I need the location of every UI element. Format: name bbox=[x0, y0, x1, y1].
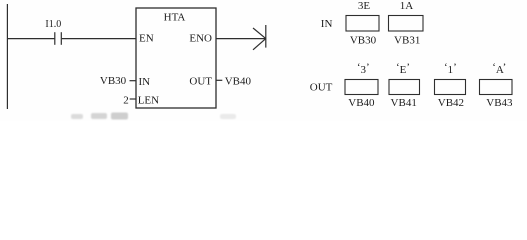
pin EN bbox=[139, 33, 154, 45]
svg-text:VB41: VB41 bbox=[391, 97, 417, 109]
svg-text:VB40: VB40 bbox=[348, 97, 375, 109]
address VB43 bbox=[486, 97, 513, 109]
value '3' above VB40 bbox=[357, 62, 370, 77]
byte box VB43 bbox=[480, 80, 513, 95]
svg-text:VB40: VB40 bbox=[225, 76, 252, 88]
pin ENO bbox=[189, 33, 212, 45]
operand 2 at LEN bbox=[123, 94, 129, 106]
svg-text:IN: IN bbox=[139, 76, 151, 88]
operand VB30 at IN bbox=[100, 75, 127, 87]
wire: rail to contact I1.0 bbox=[7, 38, 54, 40]
svg-text:OUT: OUT bbox=[310, 81, 333, 93]
pin OUT bbox=[189, 76, 212, 88]
label HTA bbox=[164, 11, 186, 23]
svg-text:VB30: VB30 bbox=[100, 75, 127, 87]
svg-text:1A: 1A bbox=[400, 0, 414, 12]
pin IN bbox=[139, 76, 151, 88]
svg-text:IN: IN bbox=[321, 18, 333, 30]
label OUT (output byte table) bbox=[310, 81, 333, 93]
address VB30 bbox=[350, 35, 377, 47]
svg-text:VB30: VB30 bbox=[350, 35, 377, 47]
svg-text:ENO: ENO bbox=[189, 33, 212, 45]
left power rail bbox=[6, 4, 8, 109]
address VB42 bbox=[438, 97, 464, 109]
label IN (input byte table) bbox=[321, 18, 333, 30]
svg-text:HTA: HTA bbox=[164, 11, 186, 23]
label I1.0 bbox=[45, 19, 61, 30]
wire: contact to HTA box bbox=[62, 38, 136, 40]
HTA instruction box bbox=[136, 8, 216, 108]
svg-text:3E: 3E bbox=[358, 0, 371, 12]
value 3E above VB30 bbox=[358, 0, 371, 12]
svg-text:EN: EN bbox=[139, 33, 154, 45]
svg-text:LEN: LEN bbox=[138, 94, 159, 106]
byte box VB41 bbox=[389, 80, 420, 95]
wire: ENO to continuation arrow bbox=[216, 38, 266, 40]
svg-text:VB42: VB42 bbox=[438, 97, 464, 109]
value '1' above VB42 bbox=[444, 62, 457, 77]
contact I1.0 bbox=[55, 32, 62, 45]
byte box VB30 bbox=[346, 16, 379, 32]
address VB40 bbox=[348, 97, 375, 109]
svg-text:VB31: VB31 bbox=[394, 35, 420, 47]
svg-text:I1.0: I1.0 bbox=[45, 19, 61, 30]
value 1A above VB31 bbox=[400, 0, 414, 12]
continuation arrow bbox=[253, 25, 266, 50]
operand VB40 at OUT bbox=[225, 76, 252, 88]
tick: operand 2 to LEN pin bbox=[130, 98, 136, 100]
value 'E' above VB41 bbox=[396, 62, 410, 77]
svg-text:‘A’: ‘A’ bbox=[492, 62, 506, 77]
address VB41 bbox=[391, 97, 417, 109]
svg-text:‘3’: ‘3’ bbox=[357, 62, 370, 77]
svg-text:OUT: OUT bbox=[189, 76, 212, 88]
svg-text:2: 2 bbox=[123, 94, 129, 106]
pin LEN bbox=[138, 94, 159, 106]
byte box VB42 bbox=[435, 80, 466, 95]
tick: OUT pin to operand VB40 bbox=[216, 79, 222, 81]
byte box VB40 bbox=[345, 80, 378, 95]
svg-text:VB43: VB43 bbox=[486, 97, 513, 109]
value 'A' above VB43 bbox=[492, 62, 506, 77]
svg-text:‘E’: ‘E’ bbox=[396, 62, 410, 77]
byte box VB31 bbox=[389, 16, 424, 32]
tick: operand VB30 to IN pin bbox=[130, 80, 137, 82]
svg-text:‘1’: ‘1’ bbox=[444, 62, 457, 77]
address VB31 bbox=[394, 35, 420, 47]
